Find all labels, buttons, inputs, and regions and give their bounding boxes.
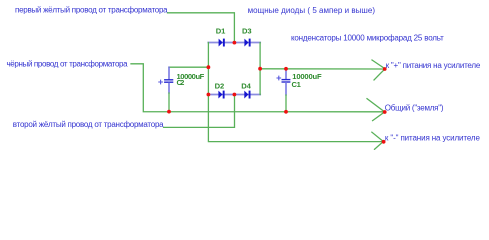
node: ground output arrow: [367, 99, 387, 121]
svg-text:C2: C2: [177, 78, 185, 87]
wire: bridge left edge: [207, 43, 209, 95]
svg-text:D4: D4: [241, 81, 251, 90]
capacitor C1: [277, 69, 322, 112]
node: negative output arrow: [372, 132, 386, 149]
svg-text:D1: D1: [216, 26, 226, 35]
junction: C2 wire at bridge left edge: [207, 65, 211, 69]
svg-text:конденсаторы 10000 микрофарад: конденсаторы 10000 микрофарад 25 вольт: [291, 34, 444, 43]
diode D3: [242, 26, 252, 46]
junction: positive rail at bridge right edge: [258, 67, 262, 71]
svg-text:чёрный провод от трансформатор: чёрный провод от трансформатора: [7, 59, 129, 68]
junction: bridge top center: [233, 41, 237, 45]
svg-text:Общий ("земля"): Общий ("земля"): [385, 104, 444, 113]
diode D2: [215, 81, 225, 98]
wire: second yellow transformer lead to bridge bottom center: [164, 95, 235, 128]
diode D1: [216, 26, 226, 46]
junction: C1 top on positive rail: [284, 67, 288, 71]
svg-text:к "-" питания на усилителе: к "-" питания на усилителе: [385, 133, 481, 142]
svg-text:мощные диоды ( 5 ампер и выше): мощные диоды ( 5 ампер и выше): [248, 6, 376, 15]
junction: bridge bottom center: [233, 93, 237, 97]
wire: bridge top edge: [208, 42, 260, 44]
wire: black transformer lead / ground rail: [131, 64, 385, 112]
wire: positive rail from bridge right edge: [260, 68, 385, 70]
wire: negative output from bridge bottom-left corner: [208, 95, 383, 142]
svg-text:первый жёлтый провод от трансф: первый жёлтый провод от трансформатора: [15, 6, 168, 15]
wire: first yellow transformer lead to bridge top center: [168, 13, 235, 43]
svg-text:второй жёлтый провод от трансф: второй жёлтый провод от трансформатора: [13, 120, 164, 129]
svg-text:D3: D3: [242, 26, 252, 35]
node: positive output arrow: [372, 60, 387, 80]
junction: bridge bottom-left corner: [207, 93, 211, 97]
wire: bridge right edge: [259, 43, 261, 95]
capacitor C2: [159, 67, 205, 111]
wire: C2 top to bridge left edge: [169, 66, 208, 68]
svg-text:к "+" питания на усилителе: к "+" питания на усилителе: [386, 61, 481, 70]
svg-text:D2: D2: [215, 81, 225, 90]
wire: bridge bottom edge: [208, 94, 260, 96]
svg-text:C1: C1: [292, 80, 302, 89]
diode D4: [241, 81, 251, 98]
junction: C2 bottom on ground rail: [167, 110, 171, 114]
junction: C1 bottom on ground rail: [284, 110, 288, 114]
